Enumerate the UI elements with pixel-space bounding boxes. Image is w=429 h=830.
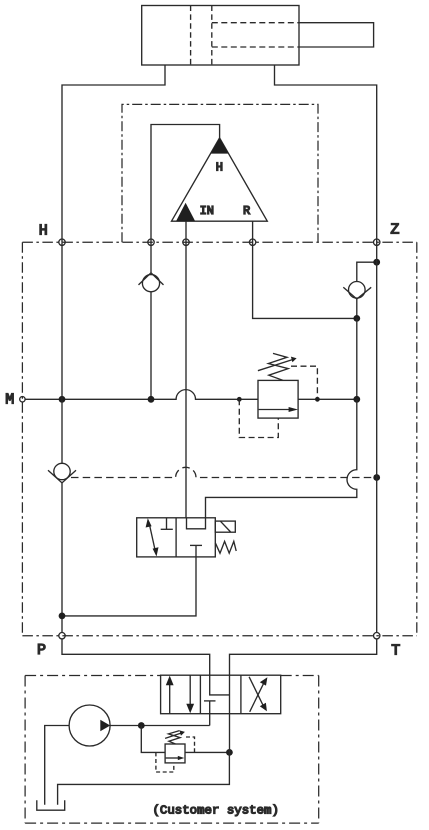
svg-text:T: T	[391, 643, 400, 660]
wire cylinder right leg to node Z	[275, 65, 377, 242]
junction dot M end	[353, 396, 360, 403]
svg-text:(Customer system): (Customer system)	[152, 804, 278, 818]
wire left boundary	[21, 242, 23, 636]
svg-text:H: H	[39, 222, 48, 239]
wire RV1 outlet	[298, 398, 357, 400]
node port circle R	[249, 239, 255, 245]
wire x357 junction to M rail	[356, 318, 358, 399]
wire M rail (with hop over IN line)	[25, 390, 258, 400]
wire x357 M to valve (hop around pilot line)	[206, 399, 357, 518]
wire pump suction	[45, 726, 69, 805]
V2 center cell blocked pump port	[204, 700, 216, 702]
svg-text:IN: IN	[200, 204, 214, 218]
wire right boundary	[416, 242, 418, 636]
V1 solenoid	[215, 521, 235, 532]
V2 left cell up arrow	[169, 684, 171, 714]
svg-text:M: M	[5, 392, 14, 409]
V1 right cell U passage	[187, 518, 206, 529]
tank symbol	[37, 800, 65, 810]
wire R line down	[253, 221, 357, 318]
wire x151 rail to check valve	[150, 242, 152, 273]
junction dot pump branch	[138, 722, 145, 729]
junction dot tank return	[226, 749, 233, 756]
wire CV2 to junction	[356, 299, 358, 318]
wire return to tank	[58, 752, 230, 804]
wire branch to relief valve RV2	[141, 726, 165, 753]
wire H supply pipe to pilot valve apex	[151, 125, 220, 243]
wire top rail H-Z	[22, 241, 416, 243]
relief valve RV2 flow arrow	[166, 757, 179, 759]
junction dot pilot right	[315, 397, 320, 402]
customer directional valve V2 body	[161, 675, 281, 714]
pilot valve IN port (filled triangle)	[176, 203, 195, 222]
V2 right cell cross arrows	[250, 682, 265, 712]
check valve CV2 (ball)	[349, 282, 366, 299]
junction dot Z branch	[373, 259, 380, 266]
relief valve RV2 adjust arrow	[165, 733, 182, 739]
wire x62 M to check valve CV3	[61, 399, 63, 463]
relief valve RV2 spring	[169, 731, 181, 744]
junction dot R branch	[353, 315, 360, 322]
V1 spring	[215, 541, 236, 553]
relief valve RV1 pilot line left (dashed)	[239, 399, 278, 437]
pump P1 flow triangle	[100, 720, 110, 732]
V2 dividers	[199, 675, 201, 714]
wire CV3 down to P junction	[61, 483, 63, 633]
relief valve RV1 pilot line right (dashed)	[291, 366, 317, 399]
pilot line CV3 to Z (dashed, hop over IN)	[71, 467, 377, 477]
pump P1 (circle)	[69, 705, 110, 746]
check valve CV3 (ball)	[54, 463, 70, 479]
junction dot P leg	[59, 613, 66, 620]
node P port circle	[59, 633, 65, 639]
relief valve RV1 adjust arrow	[258, 359, 293, 370]
svg-text:H: H	[216, 161, 223, 175]
wire CV1 to M rail	[150, 292, 152, 400]
wire P to customer valve	[62, 639, 210, 675]
junction dot pilot left	[237, 397, 242, 402]
wire pump outlet to V2	[209, 714, 211, 726]
junction dot M x151	[148, 396, 155, 403]
pilot valve U1 (triangle)	[172, 138, 268, 221]
wire Z to T	[376, 242, 378, 632]
V1 right cell blocked port T	[190, 544, 202, 546]
junction dot pilot-Z	[373, 474, 380, 481]
wire IN line (triangle base to valve)	[185, 221, 187, 518]
node H port circle	[59, 239, 65, 245]
cylinder body	[142, 6, 299, 66]
svg-text:P: P	[37, 642, 46, 659]
pilot valve apex port H (filled)	[211, 138, 229, 154]
directional valve V1 divider	[175, 518, 177, 557]
svg-text:Z: Z	[390, 221, 399, 238]
check valve CV3 (seat)	[48, 470, 76, 483]
wire V1 outlet to P leg	[62, 557, 196, 616]
check valve CV1 (ball)	[142, 275, 159, 292]
check valve CV2 (seat)	[343, 287, 371, 299]
cylinder rod hidden lines (dashed)	[212, 23, 299, 47]
wire x62 H to M	[61, 242, 63, 399]
V1 left cell blocked port	[166, 518, 168, 530]
relief valve RV1 spring	[268, 353, 288, 380]
check valve CV1 (seat)	[139, 273, 164, 285]
wire RV2 outlet	[185, 751, 229, 753]
svg-text:R: R	[243, 204, 250, 218]
customer system boundary (dashed box)	[25, 676, 319, 824]
wire cylinder left leg to node H	[62, 65, 165, 242]
cylinder rod	[299, 23, 374, 47]
relief valve RV2 body	[165, 744, 185, 763]
V2 center cell P-T passage	[210, 675, 230, 695]
wire Z branch to check valve CV2	[357, 262, 377, 281]
junction dot M x62	[59, 396, 66, 403]
node port circle x151	[148, 239, 154, 245]
relief valve RV1 flow arrow	[259, 409, 289, 411]
cylinder piston (dashed)	[191, 6, 212, 66]
relief valve RV1 body	[258, 380, 298, 418]
node Z port circle	[374, 239, 380, 245]
RV2 pilot right (dashed)	[186, 737, 195, 752]
wire bottom rail P-T	[22, 635, 416, 637]
main manifold boundary (dash-dot box)	[22, 242, 416, 636]
V1 left cell double arrow	[149, 523, 155, 552]
node M port circle	[20, 397, 25, 402]
directional valve V1 body	[137, 518, 216, 557]
wire V2 tank line down	[229, 714, 231, 753]
node port circle IN	[183, 239, 189, 245]
V2 left cell down arrow	[189, 675, 191, 705]
node T port circle	[374, 633, 380, 639]
pilot head boundary (dash-dot box)	[122, 104, 318, 242]
RV2 pilot left (dashed)	[156, 752, 174, 772]
wire T to customer valve	[230, 639, 377, 675]
wire pump outlet	[110, 725, 210, 727]
